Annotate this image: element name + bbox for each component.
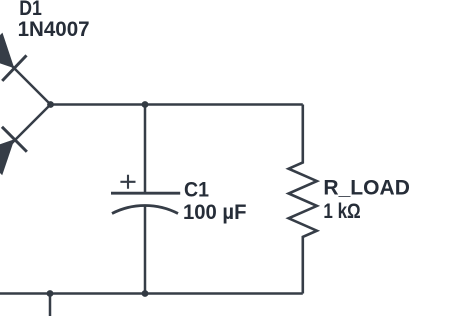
capacitor C1 polarity plus sign bbox=[120, 175, 135, 189]
svg-text:1 kΩ: 1 kΩ bbox=[323, 200, 360, 223]
bridge D1 upper edge wire bbox=[0, 54, 51, 105]
svg-text:100 µF: 100 µF bbox=[183, 201, 247, 224]
svg-text:C1: C1 bbox=[184, 179, 209, 202]
wire top rail (+) bbox=[51, 103, 303, 106]
junction node bridge output bbox=[47, 101, 54, 108]
svg-text:D1: D1 bbox=[19, 0, 42, 20]
junction node capacitor top bbox=[142, 101, 149, 108]
wire bottom rail (-) bbox=[0, 292, 303, 295]
bridge D1 lower edge wire bbox=[0, 105, 51, 156]
wire capacitor top lead bbox=[144, 105, 147, 194]
svg-text:R_LOAD: R_LOAD bbox=[323, 176, 410, 199]
resistor R_LOAD body and leads bbox=[289, 105, 317, 294]
capacitor C1 curved bottom plate bbox=[112, 205, 178, 213]
diode D1 upper cathode bar bbox=[2, 55, 26, 81]
svg-text:1N4007: 1N4007 bbox=[18, 18, 90, 41]
diode D1 upper anode triangle bbox=[0, 33, 14, 69]
diode D1 lower cathode bar bbox=[2, 127, 27, 152]
junction node capacitor bottom bbox=[142, 290, 149, 297]
wire ground stub bbox=[49, 294, 52, 316]
capacitor C1 top plate bbox=[111, 192, 180, 195]
junction node ground tap bbox=[47, 290, 54, 297]
wire capacitor bottom lead bbox=[144, 206, 147, 294]
diode D1 lower anode triangle bbox=[0, 139, 14, 175]
